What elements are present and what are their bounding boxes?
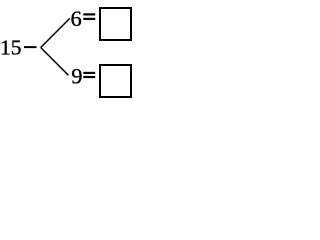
- svg-text:6: 6: [71, 6, 82, 31]
- svg-text:15: 15: [0, 35, 22, 59]
- svg-text:9: 9: [71, 64, 82, 89]
